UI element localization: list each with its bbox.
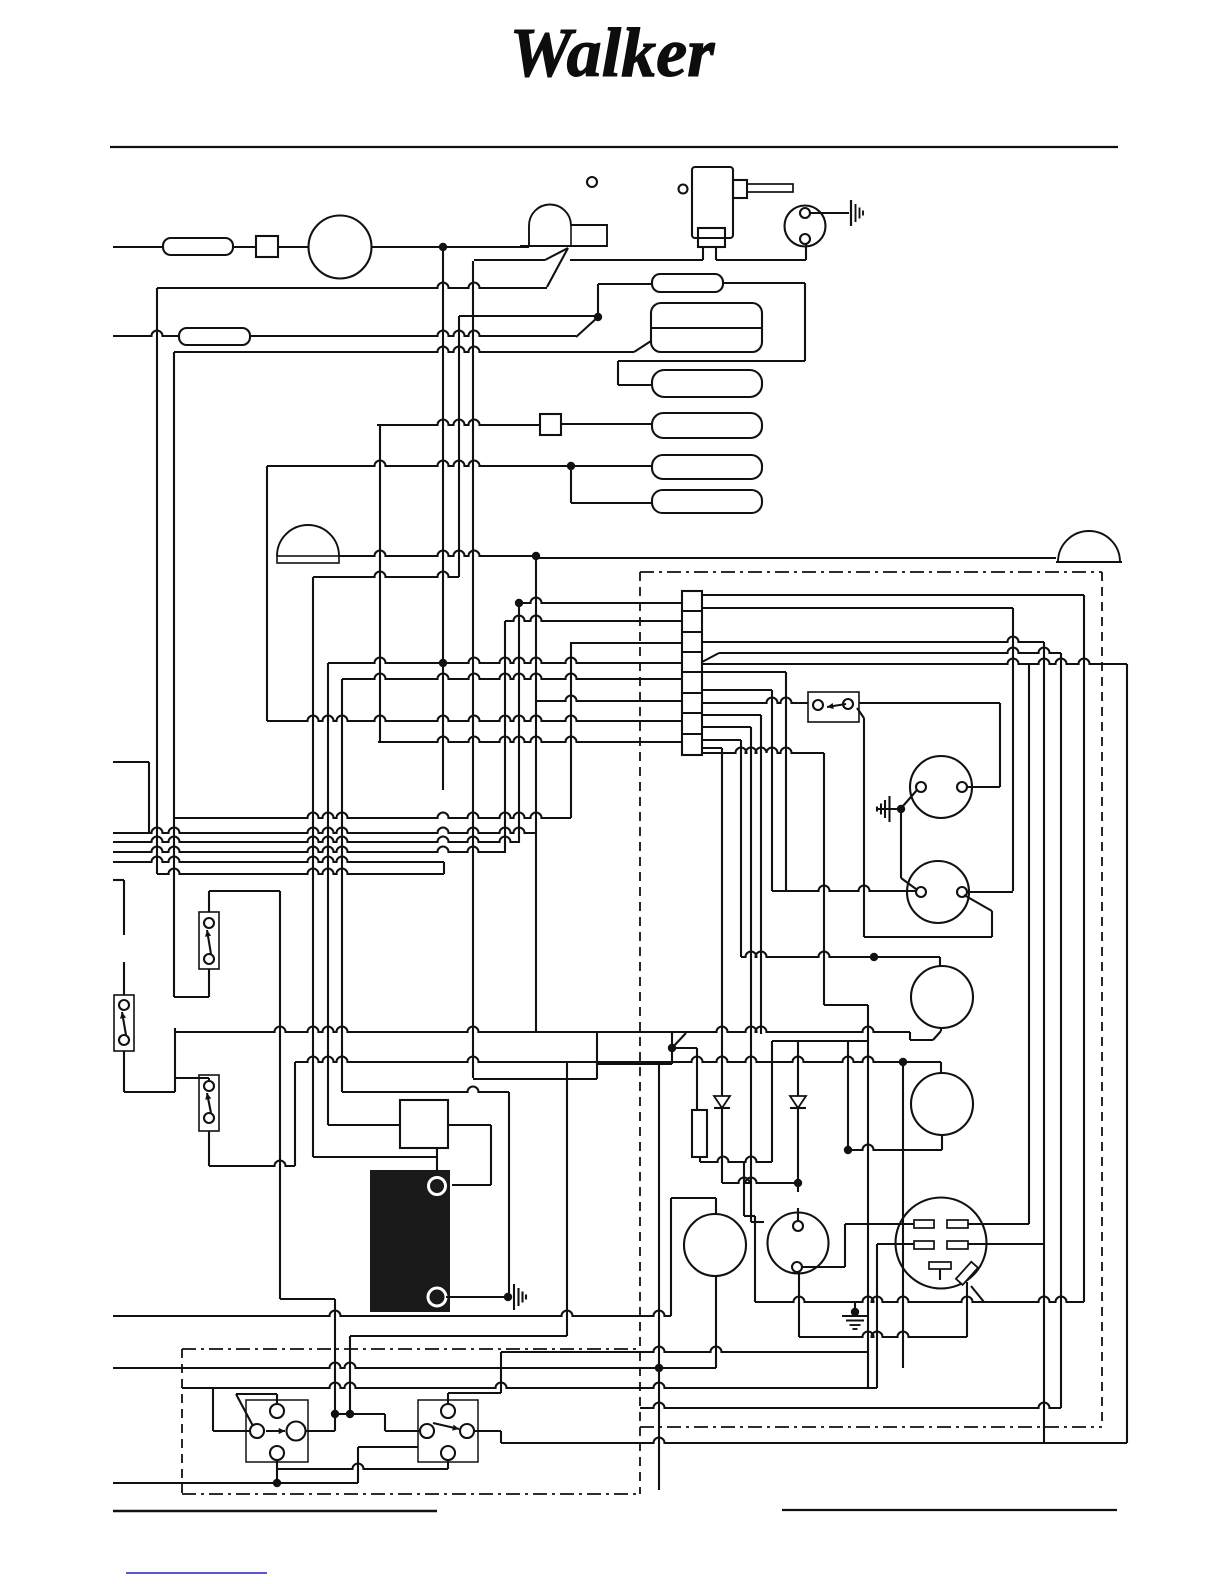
svg-text:Walker: Walker [510,15,716,92]
